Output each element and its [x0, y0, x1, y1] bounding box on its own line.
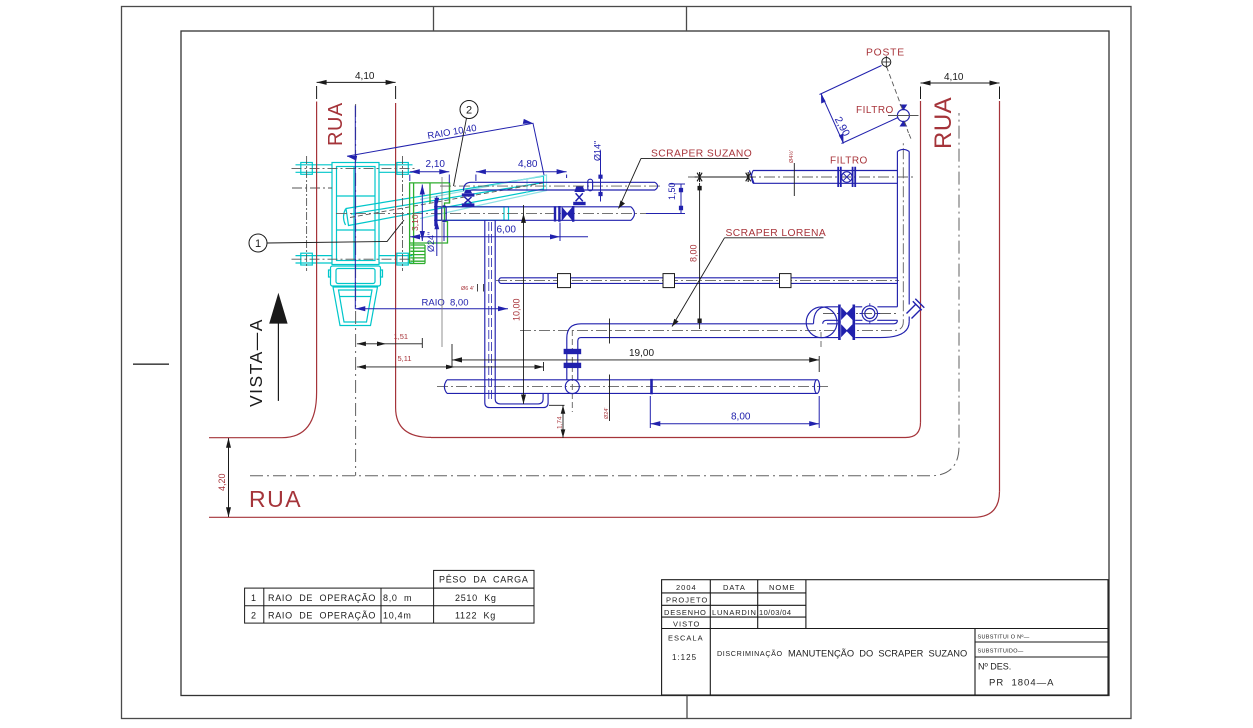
carrier cross members — [337, 167, 376, 261]
outrigger axis NW vertical — [307, 156, 403, 271]
support mark P3 — [793, 163, 795, 196]
svg-text:RUA: RUA — [249, 486, 302, 512]
left fold mark — [133, 363, 169, 365]
svg-text:RAIO 8,00: RAIO 8,00 — [422, 298, 469, 309]
outer border — [122, 7, 1132, 719]
FRAMES — [122, 7, 1132, 719]
scraper lorena underline — [725, 237, 824, 239]
street left vertical west kerb — [282, 102, 317, 438]
pipe P1 flange — [588, 179, 593, 191]
boom inner edge — [351, 183, 544, 215]
EQUIPMENT LABELS — [619, 149, 868, 327]
scraper suzano leader — [619, 158, 642, 208]
boom centerline dashed — [350, 183, 543, 218]
drop pipe V2 bore lines — [489, 222, 492, 401]
dim 4,20 bottom line — [228, 438, 230, 518]
outrigger beam S — [296, 256, 413, 263]
dim 1,74 line — [549, 405, 565, 438]
dim RAIO 10,40 arrows — [347, 119, 533, 161]
filtro top symbol axis — [888, 115, 919, 117]
dim dia24 arrows — [434, 198, 439, 230]
dim 4,80 line — [476, 172, 567, 181]
pipe P6 left cap — [499, 278, 501, 284]
centerline pipe P1 — [440, 185, 661, 187]
svg-text:1,74: 1,74 — [557, 416, 564, 429]
crane axis dash-dot marks — [292, 156, 544, 271]
dim 2,90 extension lines — [820, 66, 899, 144]
P6 coupling boxes — [558, 274, 792, 288]
pipe P2 valve bowtie — [562, 208, 572, 221]
carrier inner frame — [337, 167, 376, 261]
RUA labels — [249, 97, 957, 512]
svg-text:FILTRO: FILTRO — [856, 105, 894, 116]
outrigger axis S — [292, 258, 418, 260]
hood inner — [339, 290, 373, 322]
hatch ladder block — [410, 245, 425, 264]
svg-text:DISCRIMINAÇÃO: DISCRIMINAÇÃO — [717, 649, 783, 658]
pipe P3 left angled cap — [749, 171, 754, 184]
dim dia14 arrows — [598, 175, 602, 196]
dim 1,50 arrows — [679, 188, 683, 210]
svg-text:NOME: NOME — [769, 583, 796, 592]
svg-text:Ø24': Ø24' — [604, 408, 610, 419]
load table header box — [434, 570, 534, 588]
dim 4,10 left street line — [317, 82, 396, 99]
dim 1,51 line — [357, 338, 422, 348]
dim 4,80 arrows — [476, 169, 567, 174]
boom extension section — [420, 175, 547, 219]
BLUE DIMENSIONS — [347, 106, 819, 429]
svg-text:RAIO 10,40: RAIO 10,40 — [427, 123, 478, 142]
bottom street north kerb west stub — [209, 437, 282, 439]
dim 2,90 arrows — [821, 94, 844, 144]
centerline pipe P7 + riser P4 — [520, 143, 903, 331]
svg-text:1:125: 1:125 — [672, 653, 697, 662]
mat left band — [410, 183, 414, 264]
scraper lorena leader arrow — [672, 319, 679, 327]
body aux line — [292, 187, 332, 189]
dim 19,00 line — [452, 344, 819, 372]
svg-text:POSTE: POSTE — [866, 48, 905, 59]
filter F-1 body — [842, 172, 853, 183]
BALLOONS — [249, 101, 478, 253]
svg-text:Ø24": Ø24" — [426, 232, 436, 252]
svg-text:1: 1 — [255, 238, 261, 250]
svg-text:SUBSTITUIDO—: SUBSTITUIDO— — [978, 649, 1024, 655]
pipe P2 valve flanges — [555, 206, 573, 222]
riser V1 flange lower — [564, 363, 580, 367]
outrigger pad SE — [397, 253, 409, 265]
dim 8,00 bottom line — [650, 396, 819, 428]
poste symbol cross — [883, 56, 891, 68]
POSTE ASSEMBLY — [820, 48, 919, 144]
svg-text:1,51: 1,51 — [394, 332, 409, 341]
elbow P7 to P4 outer — [880, 322, 909, 338]
centerline V1 drop — [571, 330, 573, 412]
riser V1 flange upper — [564, 349, 580, 353]
svg-text:8,00: 8,00 — [731, 412, 751, 423]
riser valve V-1 cross — [465, 197, 472, 203]
extension line at P2 flange — [441, 177, 443, 347]
svg-text:RUA: RUA — [930, 97, 957, 149]
STREETS — [209, 101, 1000, 517]
pipe P8 right cap — [814, 380, 819, 394]
pipe P7 left elbow down — [567, 324, 581, 350]
ASTERISK SUPPORTS on P3 centerline — [695, 172, 754, 182]
inner frame — [181, 31, 1109, 696]
crane carrier body — [332, 163, 379, 265]
bottom street north kerb — [431, 422, 921, 437]
coupling box 2 — [663, 274, 675, 288]
load table body — [245, 588, 534, 623]
svg-text:4,10: 4,10 — [944, 72, 964, 83]
boom main — [346, 176, 544, 225]
elbow P7 to P4 inner — [894, 320, 898, 324]
hood outer — [333, 287, 378, 326]
title block outline — [662, 580, 1108, 695]
dim dia24 line — [436, 196, 438, 256]
svg-text:1122 Kg: 1122 Kg — [455, 610, 496, 620]
centerline pipe P8 — [437, 386, 831, 388]
dim RAIO 8,00 line — [355, 308, 508, 310]
coupling box 3 — [780, 274, 792, 288]
dim 4,10 left arrows — [317, 80, 396, 85]
tick marks at V2 note — [478, 284, 484, 292]
dim 10,00 arrows — [521, 213, 526, 404]
pipe P2 end cap — [631, 207, 635, 221]
bypass junction circle — [806, 307, 837, 338]
svg-text:1,50: 1,50 — [667, 182, 677, 200]
coupling box 1 — [558, 274, 571, 288]
balloon 2 circle — [460, 101, 478, 119]
dim 8,00 red arrows — [698, 186, 702, 323]
svg-text:ESCALA: ESCALA — [668, 634, 704, 643]
svg-text:10,00: 10,00 — [512, 298, 522, 321]
poste symbol — [882, 58, 891, 67]
svg-text:DESENHO: DESENHO — [664, 608, 707, 617]
PIPING (blue) — [434, 149, 924, 407]
dim 4,10 right street line — [921, 83, 1000, 99]
red dimension texts — [394, 150, 796, 429]
bottom strip tick — [686, 696, 688, 719]
outrigger axis N — [292, 168, 418, 170]
filtro top symbol — [897, 110, 909, 122]
svg-text:RAIO DE OPERAÇÃO: RAIO DE OPERAÇÃO — [268, 610, 376, 620]
pipe P1 walls — [471, 182, 655, 190]
boom pivot — [344, 209, 346, 225]
svg-text:8,0 m: 8,0 m — [383, 593, 412, 603]
outrigger pad NE — [397, 163, 409, 175]
dim 6,00 line — [410, 223, 588, 242]
centerline upturn stub — [820, 332, 822, 350]
top strip tick 2 — [686, 7, 688, 32]
title block vertical escala — [709, 580, 711, 695]
filtro top symbol cross — [900, 105, 908, 127]
pipe P2 walls — [434, 207, 631, 221]
svg-text:PÊSO DA CARGA: PÊSO DA CARGA — [439, 575, 529, 585]
riser valve V-1 flange bottom — [462, 203, 475, 206]
svg-text:3,10: 3,10 — [410, 214, 420, 231]
cab inner — [336, 269, 375, 284]
pipe P6 walls — [501, 278, 898, 284]
riser valve V-1 bonnet — [464, 190, 472, 193]
flow device ticks — [860, 303, 881, 324]
filter F-1 flanges on P3 — [838, 167, 855, 187]
PIPE CENTERLINES (gray dash-dot) — [336, 143, 916, 412]
LOAD TABLE — [245, 570, 534, 623]
balloon 1 circle — [249, 234, 267, 252]
street dimensions — [229, 82, 1000, 517]
flow device outer — [862, 306, 877, 321]
svg-text:2: 2 — [251, 610, 256, 620]
riser V1 walls — [567, 354, 578, 380]
svg-text:5,11: 5,11 — [398, 354, 412, 363]
load table row divider — [245, 605, 534, 607]
centerline pipe P2 — [336, 212, 650, 214]
svg-text:PROJETO: PROJETO — [666, 596, 708, 605]
bottom street south kerb — [209, 491, 1000, 517]
drop pipe V2 outer wall and underloop — [485, 221, 548, 408]
riser valve V-2 bonnet — [574, 187, 584, 193]
title block vertical data — [757, 580, 759, 629]
GREEN RIGGING MATS — [410, 183, 450, 264]
pipe P8 weld bar — [650, 379, 653, 394]
svg-text:VISTO: VISTO — [673, 619, 700, 628]
support connecting line — [703, 176, 745, 178]
outrigger beam N — [296, 165, 413, 173]
TITLE BLOCK — [662, 580, 1108, 695]
pipe P1 end cap — [655, 182, 658, 190]
dim dia14 line — [600, 151, 602, 202]
svg-text:RAIO DE OPERAÇÃO: RAIO DE OPERAÇÃO — [268, 593, 376, 603]
svg-text:8,00: 8,00 — [689, 244, 699, 262]
vista arrow head — [269, 293, 287, 324]
load table column dividers — [264, 588, 434, 623]
svg-text:2,90: 2,90 — [832, 115, 852, 139]
cab upper — [331, 266, 381, 286]
scraper load on pipe (cyan overlay) — [435, 207, 509, 220]
svg-text:Ø14": Ø14" — [593, 141, 603, 161]
centerline pipe P3 — [688, 176, 916, 178]
svg-text:PR 1804—A: PR 1804—A — [989, 678, 1054, 689]
bypass valve upper flanges — [839, 305, 853, 323]
scraper suzano leader arrow — [619, 201, 626, 209]
dim 19,00 arrows — [452, 357, 819, 362]
dim 6,00 arrows — [410, 234, 560, 239]
riser valve V-1 flange top — [462, 193, 475, 196]
asterisk support 2 — [743, 172, 753, 182]
mat step — [430, 183, 450, 203]
BLACK DIMENSIONS — [357, 163, 819, 438]
vista arrow shaft — [277, 323, 279, 401]
centerline bypass branch — [823, 313, 896, 315]
dim 2,10 line — [410, 172, 450, 183]
boom extension (light cyan) — [420, 175, 547, 219]
pipe P2 left flange — [434, 200, 437, 226]
svg-text:MANUTENÇÃO DO SCRAPER SUZAN: MANUTENÇÃO DO SCRAPER SUZANO — [788, 649, 967, 659]
svg-text:10,4m: 10,4m — [383, 610, 412, 620]
P7 valve lower flanges — [839, 322, 853, 341]
bypass valve upper bowtie — [842, 308, 853, 319]
svg-text:4,10: 4,10 — [355, 71, 375, 82]
svg-text:2,10: 2,10 — [426, 159, 446, 170]
asterisk support 1 — [695, 172, 705, 182]
riser valve V-2 cross — [576, 193, 583, 201]
svg-text:SUBSTITUI O Nº—: SUBSTITUI O Nº— — [978, 634, 1030, 641]
svg-text:SCRAPER SUZANO: SCRAPER SUZANO — [651, 149, 752, 160]
balloon 2 leader — [454, 118, 467, 186]
svg-text:10/03/04: 10/03/04 — [759, 608, 791, 617]
bypass upturn elbow — [814, 307, 828, 324]
bypass branch walls — [827, 307, 897, 321]
svg-text:2004: 2004 — [676, 583, 697, 592]
dim 5,11 arrows — [357, 363, 544, 371]
drop pipe V2 inner wall — [495, 221, 543, 404]
pipe P1 left elbow — [464, 182, 474, 191]
dim 4,10 right arrows — [921, 81, 1000, 86]
support mark P8 — [609, 375, 611, 422]
dim 8,00 red vertical line — [699, 183, 701, 329]
title block vertical substitui — [974, 629, 976, 696]
boom extension tip — [526, 179, 528, 194]
svg-text:VISTA—A: VISTA—A — [246, 318, 266, 407]
pipe P8 left cap — [444, 380, 447, 394]
riser valve V-2 flange bottom — [573, 202, 585, 205]
diagonal stub at P4 elbow — [907, 299, 925, 319]
poste dashed line — [887, 67, 912, 141]
centerline pipe P6 — [496, 280, 899, 282]
V1 tee circle on P8 — [565, 380, 579, 394]
dim 2,10 arrows — [410, 169, 450, 174]
outrigger pad NW — [301, 163, 313, 175]
dim 1,51 arrows — [357, 340, 386, 348]
title block row lines — [662, 593, 1108, 629]
dim RAIO 8,00 arrows — [355, 306, 508, 311]
CRANE TRUCK (plan view, cyan) — [296, 163, 544, 326]
filter F-1 cross — [843, 173, 850, 180]
pipe P3 walls — [753, 171, 897, 184]
scraper lorena leader — [672, 238, 725, 327]
svg-text:Ø4½': Ø4½' — [788, 150, 795, 163]
svg-text:2510 Kg: 2510 Kg — [455, 593, 497, 603]
scraper suzano underline — [641, 157, 749, 159]
dim 10,00 line — [523, 205, 525, 404]
svg-text:LUNARDIN: LUNARDIN — [712, 608, 757, 617]
dim 3,10 line — [421, 185, 423, 242]
cab mirror left — [329, 270, 331, 277]
centerline left street — [355, 104, 357, 476]
svg-text:4,20: 4,20 — [217, 473, 227, 491]
riser pipe P4 top cap — [897, 149, 909, 151]
pipe P7 top wall — [581, 323, 894, 325]
dim 1,74 arrows — [561, 405, 566, 438]
street left vertical east kerb — [396, 103, 431, 437]
pipe P2 weld cap — [442, 206, 447, 222]
svg-text:FILTRO: FILTRO — [830, 156, 868, 167]
top strip tick 1 — [433, 7, 435, 32]
svg-text:19,00: 19,00 — [629, 348, 654, 359]
cab mirror right — [381, 270, 383, 277]
street right vertical west kerb — [920, 101, 922, 422]
svg-text:6,00: 6,00 — [497, 225, 517, 236]
riser pipe P4 walls — [897, 152, 909, 322]
svg-text:4,80: 4,80 — [518, 159, 538, 170]
svg-text:1: 1 — [251, 593, 256, 603]
street centerlines — [250, 104, 959, 476]
title block vertical nome — [805, 580, 807, 629]
support mark P7 — [609, 319, 611, 344]
balloon 1 leader — [267, 220, 404, 243]
flow device inner — [865, 309, 875, 319]
VISTA-A view arrow — [246, 293, 288, 407]
pipe P8 walls — [447, 380, 817, 394]
mat main outline — [410, 183, 450, 243]
svg-text:DATA: DATA — [723, 583, 746, 592]
dim 4,20 arrows — [226, 438, 231, 518]
dim 1,50 line — [646, 184, 685, 214]
centerline bottom+right street — [250, 113, 959, 476]
hood front line — [340, 296, 371, 298]
dim 8,00 bottom arrows — [650, 421, 819, 426]
dim 5,11 line — [357, 362, 544, 371]
pipe P7 bottom wall — [581, 337, 880, 339]
crane axis line — [354, 106, 356, 309]
dim 2,90 line — [821, 94, 844, 144]
outrigger pad SW — [301, 253, 313, 265]
svg-text:2: 2 — [466, 104, 472, 116]
svg-text:Ø6 4': Ø6 4' — [461, 286, 474, 292]
dim RAIO 10,40 line — [347, 123, 544, 175]
svg-text:RUA: RUA — [325, 102, 347, 146]
P7 valve lower bowtie — [842, 325, 853, 336]
svg-text:Nº DES.: Nº DES. — [978, 662, 1011, 672]
street right vertical east kerb — [999, 101, 1001, 491]
dim 3,10 arrows — [420, 185, 425, 242]
substitui row lines — [975, 642, 1108, 657]
